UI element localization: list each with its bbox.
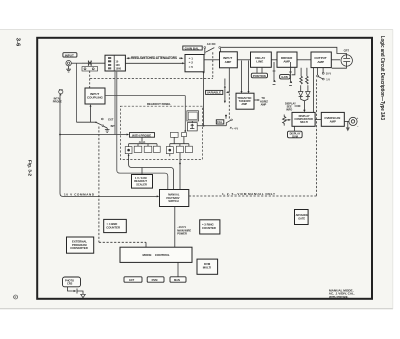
svg-text:AMP: AMP [241, 102, 247, 106]
svg-text:10 V: 10 V [326, 71, 332, 75]
svg-text:Logic and Circuit Description—: Logic and Circuit Description—Type 3A3 [379, 36, 385, 120]
svg-text:+ 4 V: + 4 V [232, 126, 238, 130]
svg-text:1, 2, 5—V/CM MANUAL ONLY: 1, 2, 5—V/CM MANUAL ONLY [222, 192, 275, 196]
svg-text:COUNTER: COUNTER [106, 226, 120, 230]
svg-text:VARIABLE: VARIABLE [207, 91, 221, 95]
svg-text:REED-SWITCHED ATTENUATORS: REED-SWITCHED ATTENUATORS [131, 56, 177, 60]
svg-text:INFO: INFO [286, 108, 292, 112]
svg-text:3-6: 3-6 [15, 38, 21, 47]
svg-text:CRT: CRT [344, 48, 350, 52]
svg-text:MULTI: MULTI [300, 120, 308, 124]
svg-text:AMP: AMP [283, 60, 290, 64]
svg-text:PROBE: PROBE [53, 100, 62, 104]
svg-text:1000: 1000 [116, 67, 122, 70]
svg-text:INPUT: INPUT [65, 53, 74, 57]
svg-text:AC DC: AC DC [207, 42, 216, 46]
svg-text:GATE: GATE [298, 216, 305, 220]
svg-text:WITH PROBE.: WITH PROBE. [329, 295, 349, 299]
svg-text:10 V COMMAND: 10 V COMMAND [64, 193, 95, 197]
svg-text:WITH PROBE: WITH PROBE [132, 133, 151, 137]
svg-text:GAIN BAL: GAIN BAL [185, 46, 200, 50]
svg-text:MAN: MAN [174, 278, 180, 282]
svg-text:READOUT PANEL: READOUT PANEL [147, 102, 171, 106]
svg-text:DVM: DVM [152, 278, 158, 282]
svg-text:POSITION: POSITION [253, 74, 266, 78]
svg-text:≈ 5: ≈ 5 [189, 65, 193, 69]
svg-text:GAIN: GAIN [281, 75, 288, 79]
svg-text:Fig. 3-2: Fig. 3-2 [28, 160, 33, 177]
svg-text:AMP: AMP [330, 119, 336, 123]
svg-text:EXT: EXT [108, 117, 113, 121]
svg-text:INT: INT [111, 124, 116, 128]
svg-text:CAL: CAL [217, 120, 223, 124]
svg-text:COUPLING: COUPLING [87, 96, 104, 100]
svg-text:ADVANCE: ADVANCE [296, 213, 309, 217]
svg-text:AMP: AMP [225, 60, 232, 64]
svg-text:POWER: POWER [177, 232, 187, 236]
svg-text:SWITCH: SWITCH [168, 199, 178, 203]
svg-text:CONVERTER: CONVERTER [70, 246, 88, 250]
svg-text:CRS: CRS [67, 282, 73, 286]
svg-text:COUNTER: COUNTER [202, 226, 216, 230]
svg-text:MODE CONTROL: MODE CONTROL [143, 253, 170, 257]
svg-text:LINE: LINE [256, 60, 263, 64]
svg-text:MULTI: MULTI [203, 265, 212, 269]
svg-text:EXT: EXT [129, 278, 134, 282]
svg-text:R: R [15, 296, 17, 299]
svg-text:DVM: DVM [292, 134, 298, 138]
svg-text:SCALER: SCALER [136, 182, 147, 186]
svg-text:PHOTO: PHOTO [65, 278, 74, 282]
svg-text:AMP: AMP [261, 103, 267, 107]
svg-text:AMP: AMP [317, 60, 324, 64]
svg-text:1 V: 1 V [326, 78, 330, 82]
